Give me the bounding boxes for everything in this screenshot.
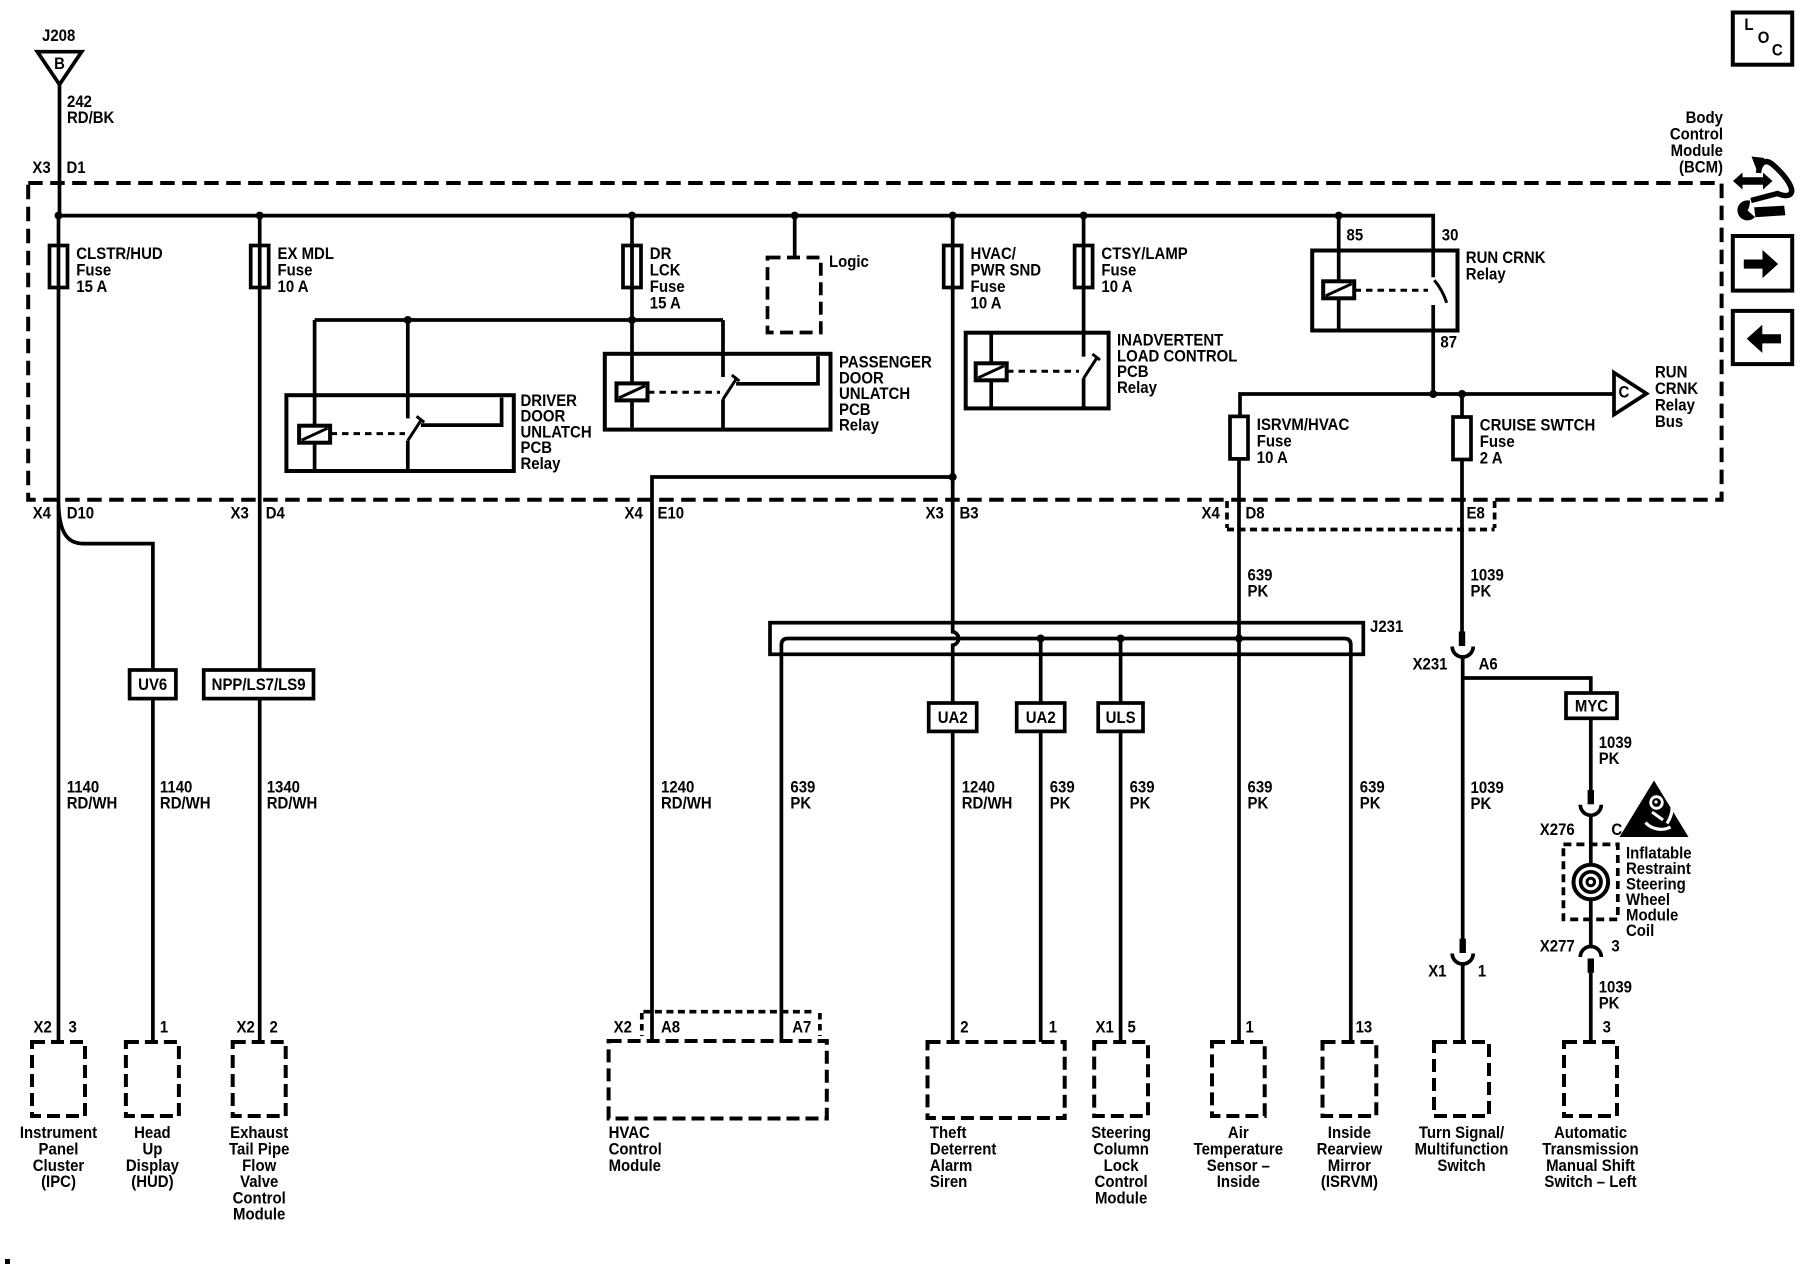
svg-text:Fuse: Fuse [278,262,313,280]
relay inadvertent switch blade [1084,354,1100,378]
pin 85 label [1347,227,1364,245]
svg-text:A6: A6 [1479,656,1498,674]
label INADVERTENT LOAD CONTROL PCB Relay [1117,332,1238,397]
pin 1 (HUD) [160,1019,168,1037]
svg-text:Relay: Relay [521,455,561,473]
svg-text:10 A: 10 A [278,278,309,296]
wire run crnk relay bus [1240,394,1614,416]
label 639 PK (D8) [1248,567,1273,601]
fuse DR LCK 15 A [623,245,685,312]
junction at CTSY/LAMP fuse [1080,212,1088,220]
svg-text:Bus: Bus [1655,413,1683,431]
wire 1240 RD/WH B3 to theft siren (hops J231) [953,500,959,1042]
wire X277 to shift switch [1589,973,1593,1042]
wire inadvertent coil feed [989,333,993,364]
svg-text:Relay: Relay [839,417,879,435]
wire 1140 RD/WH D10 to IPC [57,500,61,1042]
svg-text:2 A: 2 A [1480,450,1503,468]
tag MYC [1566,693,1617,718]
wire 639 PK J231 to steering column lock [1119,639,1123,1043]
label RUN CRNK Relay Bus [1655,364,1699,431]
svg-text:5: 5 [1128,1019,1136,1037]
connector triangle C run crnk relay bus [1614,373,1647,415]
wire driver relay coil feed [313,320,317,426]
svg-text:Switch – Left: Switch – Left [1544,1173,1637,1191]
svg-text:RD/WH: RD/WH [661,794,712,812]
wire 1140 RD/WH branch to HUD [59,505,153,1042]
tag NPP/LS7/LS9 [204,670,314,699]
svg-text:Inside: Inside [1217,1173,1260,1191]
svg-text:D10: D10 [67,505,95,523]
svg-text:1: 1 [160,1019,168,1037]
module Inside Rearview Mirror box [1323,1042,1377,1116]
fuse CTSY/LAMP 10 A [1075,245,1188,296]
svg-text:PK: PK [1130,794,1151,812]
label 1039 PK (E8) [1471,567,1504,601]
svg-text:RUN CRNK: RUN CRNK [1466,249,1546,267]
svg-text:PK: PK [1248,582,1269,600]
module Air Temperature Sensor box [1212,1042,1265,1116]
svg-text:C: C [1772,42,1783,60]
svg-text:EX MDL: EX MDL [278,245,335,263]
svg-text:RD/WH: RD/WH [67,794,118,812]
pin 13 (ISRVM) [1356,1019,1373,1037]
label 639 PK (A7) [790,779,815,813]
label HVAC Control Module [609,1124,662,1175]
svg-text:UA2: UA2 [1026,709,1056,727]
svg-text:PK: PK [1599,994,1620,1012]
junction at HVAC/PWR SND fuse [949,212,957,220]
svg-text:A8: A8 [661,1019,680,1037]
svg-text:J208: J208 [42,27,75,45]
label 1039 PK (shift switch) [1599,979,1632,1013]
svg-text:Logic: Logic [829,253,869,271]
legend LOC box [1733,13,1792,65]
wire CTSY/LAMP fuse branch [1082,216,1086,357]
page mark [5,1259,10,1264]
node X3 B3 pins [926,505,979,523]
label 639 PK (ISRVM) [1360,779,1385,813]
tag UV6 [130,670,176,699]
wire run crnk coil to box bottom [1337,298,1341,330]
module HVAC Control Module box [609,1041,827,1119]
logic block (dashed) [768,258,821,333]
label 1039 PK (MYC) [1599,734,1632,768]
svg-text:1: 1 [1049,1019,1057,1037]
wire coil to X277 [1589,901,1593,948]
wire X1 to turn signal box [1461,965,1465,1043]
wire Logic feed [793,216,797,258]
svg-text:X1: X1 [1096,1019,1114,1037]
label Automatic Transmission Manual Shift Switch - Left [1542,1124,1638,1191]
node X3 D4 pins [231,505,285,523]
svg-text:PK: PK [790,794,811,812]
svg-text:O: O [1758,29,1770,47]
svg-text:CLSTR/HUD: CLSTR/HUD [76,245,162,263]
dashed link run crnk coil-switch [1355,289,1429,292]
svg-text:1: 1 [1478,963,1486,981]
svg-text:1: 1 [1246,1019,1254,1037]
label X276 / C [1540,821,1623,839]
wire X276 to coil [1589,816,1593,864]
tag ULS [1098,703,1143,731]
svg-text:2: 2 [960,1019,968,1037]
svg-text:PK: PK [1599,750,1620,768]
label 639 PK (lock mod) [1130,779,1155,813]
label RUN CRNK Relay [1466,249,1546,283]
connector X231 inline [1452,632,1473,658]
svg-text:X2: X2 [614,1019,632,1037]
svg-text:CRUISE SWTCH: CRUISE SWTCH [1480,417,1595,435]
junction J231 tap ULS [1117,635,1125,643]
svg-text:Relay: Relay [1655,397,1695,415]
label 1240 RD/WH (siren) [962,779,1013,813]
relay RUN CRNK outline [1312,251,1457,331]
svg-text:UA2: UA2 [938,709,968,727]
label 1140 RD/WH (HUD) [160,779,211,813]
relay DRIVER DOOR UNLATCH PCB outline [286,395,513,471]
wire DR LCK fuse branch [630,216,634,320]
svg-text:E10: E10 [658,505,685,523]
splice pack J231 internal bus with taps to HVAC A7 and ISRVM [781,639,1350,1043]
label Turn Signal / Multifunction Switch [1415,1124,1509,1175]
svg-text:Module: Module [1095,1190,1147,1208]
wire run crnk coil feed [1337,216,1341,282]
svg-text:2: 2 [270,1019,278,1037]
svg-text:Module: Module [1671,142,1723,160]
wire EX MDL fuse branch to D4 [258,216,262,500]
label 639 PK (siren 1) [1050,779,1075,813]
svg-text:PWR SND: PWR SND [971,262,1042,280]
label PASSENGER DOOR UNLATCH PCB Relay [839,354,932,435]
label Air Temperature Sensor - Inside [1194,1124,1284,1191]
svg-text:30: 30 [1442,227,1459,245]
svg-text:ISRVM/HVAC: ISRVM/HVAC [1257,416,1350,434]
label Exhaust Tail Pipe Flow Valve Control Module [229,1124,289,1224]
svg-text:13: 13 [1356,1019,1373,1037]
node J208 label [42,27,75,45]
svg-text:Fuse: Fuse [1257,433,1292,451]
tag UA2 (siren 2) [929,703,977,731]
inductor SIR coil spiral [1574,865,1609,900]
relay driver coil [299,426,330,443]
svg-text:Control: Control [1670,126,1723,144]
svg-text:LCK: LCK [650,262,681,280]
tag UA2 (siren 1) [1017,703,1065,731]
svg-text:Fuse: Fuse [76,262,111,280]
svg-text:Relay: Relay [1117,379,1157,397]
svg-text:87: 87 [1440,334,1457,352]
label 639 PK (air temp) [1248,779,1273,813]
svg-text:PK: PK [1471,795,1492,813]
wire branch B3-to-E10 jog [652,477,953,500]
wire driver coil to box bottom [313,443,317,471]
wire CLSTR/HUD fuse branch to D10 [57,216,61,500]
relay inadvertent coil [976,363,1007,380]
pin X2 / A8 / A7 (HVAC) [614,1019,812,1037]
wire 1340 RD/WH D4 to exhaust module [258,500,262,1042]
label 1039 PK (turn signal) [1471,779,1504,813]
svg-text:Fuse: Fuse [1101,262,1136,280]
relay PASSENGER DOOR UNLATCH PCB outline [605,354,831,430]
svg-text:Module: Module [233,1206,285,1224]
dashed link passenger coil-switch [648,391,720,394]
svg-text:3: 3 [1603,1019,1611,1037]
fuse CLSTR/HUD 15 A [50,245,163,296]
pin X2 / 3 (IPC) [34,1019,77,1037]
svg-text:Body: Body [1686,109,1723,127]
label X231 / A6 [1413,656,1498,674]
svg-text:X3: X3 [231,505,249,523]
label 1340 RD/WH [267,779,318,813]
label 1140 RD/WH (IPC) [67,779,118,813]
svg-text:E8: E8 [1467,505,1485,523]
label 242 RD/BK [67,93,115,127]
wire 1240 RD/WH E10 to HVAC module [650,500,654,1042]
fuse EX MDL 10 A [251,245,334,296]
wire passenger coil to box bottom [630,400,634,429]
dashed link driver coil-switch [331,432,406,435]
module Instrument Panel Cluster box [32,1042,85,1116]
junction at EX MDL fuse [256,212,264,220]
pin 87 label [1440,334,1457,352]
wire passenger switch common [721,399,725,429]
svg-text:10 A: 10 A [1257,449,1288,467]
svg-text:X231: X231 [1413,656,1448,674]
label Inside Rearview Mirror (ISRVM) [1317,1124,1383,1191]
svg-text:X1: X1 [1428,963,1446,981]
svg-text:Siren: Siren [930,1173,967,1191]
wire 639 PK J231 to theft pin 1 [1039,639,1043,1043]
wire run crnk switch common pin 87 [1431,305,1435,394]
svg-text:RD/WH: RD/WH [267,794,318,812]
wire door unlatch feed bus [315,318,723,322]
node X3 D1 pins [32,159,85,177]
svg-text:RD/BK: RD/BK [67,109,115,127]
junction at CLSTR/HUD fuse [55,212,63,220]
module Steering Column Lock Control box [1094,1042,1148,1116]
label X277 / 3 [1540,938,1620,956]
svg-text:Fuse: Fuse [971,278,1006,296]
svg-text:PK: PK [1050,794,1071,812]
label Head Up Display (HUD) [126,1124,179,1191]
wire inadvertent coil to box bottom [989,380,993,408]
svg-text:X3: X3 [32,159,50,177]
svg-text:HVAC/: HVAC/ [971,245,1017,263]
svg-text:X276: X276 [1540,821,1575,839]
dashed link inadvertent coil-switch [1007,370,1079,373]
label Steering Column Lock Control Module [1091,1124,1151,1207]
svg-text:X277: X277 [1540,938,1575,956]
wire passenger relay coil feed [630,320,634,383]
junction at Logic [791,212,799,220]
junction at DR LCK fuse [628,212,636,220]
wire cruise fuse branch [1460,394,1464,417]
module Theft Deterrent Alarm Siren box [928,1042,1065,1118]
svg-text:J231: J231 [1370,618,1403,636]
wire cruise fuse to E8 [1460,460,1464,501]
pin 3 label (shift switch) [1603,1019,1611,1037]
node X4 D8 pins [1202,505,1265,523]
svg-text:D1: D1 [67,159,86,177]
connector strip X2 (HVAC, dotted) [642,1012,820,1036]
wire passenger relay switch feed [721,320,725,377]
connector X277 inline [1580,947,1601,973]
wire MYC to X276 [1589,718,1593,790]
junction at driver relay switch [404,316,412,324]
relay passenger coil [617,383,648,400]
wire driver switch common [406,441,410,471]
svg-text:Module: Module [609,1157,661,1175]
legend reroute scribble icon [1733,157,1792,220]
warning triangle SIR (airbag) [1620,781,1689,838]
svg-text:3: 3 [1611,938,1619,956]
module inflatable restraint coil box (dashed) [1563,844,1617,919]
connector X276 inline [1580,790,1601,815]
connector triangle B from J208 [37,52,81,85]
svg-text:X4: X4 [1202,505,1220,523]
pin 2 / 1 (siren) [960,1019,1057,1037]
module Turn Signal Multifunction Switch box [1434,1042,1489,1116]
svg-text:X2: X2 [237,1019,255,1037]
svg-text:X4: X4 [625,505,643,523]
svg-text:(BCM): (BCM) [1679,159,1723,177]
junction at cruise fuse [1458,390,1466,398]
svg-text:D4: D4 [266,505,285,523]
svg-text:B3: B3 [960,505,979,523]
svg-text:B: B [54,55,65,73]
svg-text:RUN: RUN [1655,364,1687,382]
wire 242 RD/BK to BCM [58,84,62,216]
module BCM outline (dashed) [28,183,1721,500]
wire 639 PK D8 to air temp sensor [1237,500,1241,1042]
module Automatic Transmission Shift Switch box [1564,1042,1617,1116]
svg-text:X4: X4 [33,505,51,523]
label 1240 RD/WH (HVAC) [661,779,712,813]
pin X1 / 5 (lock mod) [1096,1019,1136,1037]
svg-text:A7: A7 [792,1019,811,1037]
label Instrument Panel Cluster (IPC) [20,1124,98,1191]
wire main ignition feed bus [59,216,1434,278]
pin 30 label [1442,227,1459,245]
wire driver switch output [421,398,502,426]
wire inadvertent switch common [1082,378,1086,408]
svg-text:PK: PK [1360,794,1381,812]
wire passenger switch output [736,356,818,384]
svg-text:85: 85 [1347,227,1364,245]
wire ISRVM fuse to D8 [1237,459,1241,500]
connector strip X4 D8 / E8 (dotted) [1227,501,1495,530]
module Head Up Display box [126,1042,179,1116]
junction at RUN CRNK coil [1335,212,1343,220]
node X4 E10 pins [625,505,685,523]
svg-text:X2: X2 [34,1019,52,1037]
svg-text:15 A: 15 A [650,295,681,313]
junction J231 tap UA2 [1037,635,1045,643]
svg-text:10 A: 10 A [971,295,1002,313]
svg-text:RD/WH: RD/WH [962,794,1013,812]
module Exhaust Tail Pipe Flow Valve Control box [233,1042,286,1116]
svg-text:Fuse: Fuse [650,278,685,296]
svg-text:C: C [1619,384,1630,402]
junction J231 tap D8 wire [1235,635,1243,643]
svg-text:CTSY/LAMP: CTSY/LAMP [1101,245,1188,263]
relay run crnk coil [1323,281,1354,298]
label X1 / 1 [1428,963,1486,981]
svg-text:RD/WH: RD/WH [160,794,211,812]
label Inflatable Restraint Steering Wheel Module Coil [1626,845,1692,941]
legend back arrow box [1733,311,1792,364]
splice pack J231 outline [770,623,1363,655]
svg-text:UV6: UV6 [138,676,167,694]
wire branch A6 to MYC [1463,678,1591,693]
svg-text:PK: PK [1471,582,1492,600]
junction at B3/E10 split [949,473,957,481]
wire X231 to turn signal switch [1461,658,1465,940]
wire driver relay switch feed [406,320,410,418]
svg-text:D8: D8 [1246,505,1265,523]
svg-text:CRNK: CRNK [1655,380,1699,398]
fuse CRUISE SWTCH 2 A [1453,417,1595,468]
svg-text:3: 3 [69,1019,77,1037]
relay passenger switch blade [723,375,739,399]
legend forward arrow box [1733,236,1792,291]
label J231 [1370,618,1403,636]
junction at passenger relay coil [628,316,636,324]
svg-text:(IPC): (IPC) [41,1173,76,1191]
svg-text:MYC: MYC [1575,698,1609,716]
relay INADVERTENT LOAD CONTROL PCB outline [966,333,1109,409]
connector X1 inline [1452,939,1473,964]
fuse ISRVM/HVAC 10 A [1230,416,1350,467]
svg-text:15 A: 15 A [76,278,107,296]
svg-text:(ISRVM): (ISRVM) [1321,1173,1378,1191]
svg-text:Coil: Coil [1626,922,1654,940]
pin 1 (air temp) [1246,1019,1254,1037]
label DRIVER DOOR UNLATCH PCB Relay [521,392,592,473]
svg-text:L: L [1744,16,1753,34]
svg-text:DR: DR [650,245,672,263]
relay run crnk switch blade [1434,280,1446,303]
node E8 pin [1467,505,1485,523]
svg-text:10 A: 10 A [1101,278,1132,296]
svg-text:PK: PK [1248,794,1269,812]
fuse HVAC/PWR SND 10 A [944,245,1041,312]
relay driver switch blade [408,416,424,440]
svg-text:Fuse: Fuse [1480,433,1515,451]
svg-text:NPP/LS7/LS9: NPP/LS7/LS9 [212,676,306,694]
svg-text:(HUD): (HUD) [131,1173,173,1191]
label Theft Deterrent Alarm Siren [930,1124,997,1191]
svg-text:Switch: Switch [1437,1157,1485,1175]
label Logic [829,253,869,271]
svg-text:Relay: Relay [1466,266,1506,284]
pin X2 / 2 (exhaust) [237,1019,278,1037]
junction at pin 87 [1429,390,1437,398]
label Body Control Module (BCM) [1670,109,1723,176]
wire HVAC/PWR SND fuse branch to B3 [951,216,955,500]
wire 1039 PK E8 to X231 [1460,500,1464,632]
svg-text:ULS: ULS [1106,709,1136,727]
node X4 D10 pins [33,505,95,523]
svg-text:X3: X3 [926,505,944,523]
